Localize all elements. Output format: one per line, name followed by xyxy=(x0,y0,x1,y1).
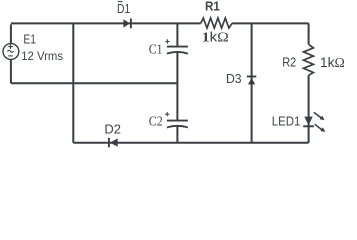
wire C2 bottom stub xyxy=(176,126,178,143)
svg-text:D2: D2 xyxy=(104,122,121,137)
svg-text:LED1: LED1 xyxy=(272,113,301,128)
svg-text:C2: C2 xyxy=(149,115,163,130)
svg-text:1kΩ: 1kΩ xyxy=(202,30,229,46)
LED1 light arrow 2 xyxy=(315,124,323,130)
wire top right segment xyxy=(232,22,309,24)
resistor R2 vertical zigzag xyxy=(304,44,314,75)
wire C1-bottom to middle to C2-top xyxy=(176,52,178,120)
svg-text:D3: D3 xyxy=(226,71,242,86)
C2 plus sign xyxy=(165,112,169,116)
diode D3 (pointing up) xyxy=(247,77,256,85)
svg-text:R2: R2 xyxy=(282,55,296,70)
wire top (node between E1+, D1, R1, R2 branch) xyxy=(11,22,201,24)
diode D2 (pointing left) xyxy=(109,138,118,148)
E1 sine symbol xyxy=(7,50,13,52)
svg-text:12 Vrms: 12 Vrms xyxy=(21,49,63,63)
wire vertical junction column at x=73 (top wire to bottom wire) xyxy=(72,23,74,142)
stray label fragment above D1 xyxy=(118,1,123,2)
wire right vertical middle (R2 to LED1) xyxy=(308,75,310,142)
E1 plus symbol xyxy=(8,44,13,49)
voltage source E1 circle xyxy=(3,44,19,60)
svg-text:R1: R1 xyxy=(205,0,220,14)
capacitor C1 (polarized) xyxy=(167,47,188,54)
C1 plus sign xyxy=(165,39,169,43)
svg-text:E1: E1 xyxy=(23,32,36,47)
LED1 light arrow 1 xyxy=(314,112,322,118)
wire bottom horizontal (D2, C2, D3, LED1 net) xyxy=(73,142,308,144)
diode D1 (pointing right) xyxy=(123,19,130,29)
wire right vertical top (to R2) xyxy=(308,23,310,44)
LED LED1 (pointing down with arrows) xyxy=(303,117,314,127)
svg-text:D1: D1 xyxy=(117,1,130,16)
wire D3 column xyxy=(251,23,253,142)
wire C1 top stub xyxy=(176,23,178,46)
resistor R1 zigzag xyxy=(201,18,232,28)
E1 minus symbol xyxy=(8,55,13,57)
wire left vertical top (E1 to top-left corner) xyxy=(10,24,12,43)
svg-text:C1: C1 xyxy=(149,43,163,58)
capacitor C2 (polarized) xyxy=(167,121,188,128)
svg-text:1kΩ: 1kΩ xyxy=(320,55,345,70)
wire middle horizontal (E1- to C1/C2 node) xyxy=(11,82,178,84)
wire left vertical bottom (E1 to middle wire) xyxy=(10,59,12,83)
